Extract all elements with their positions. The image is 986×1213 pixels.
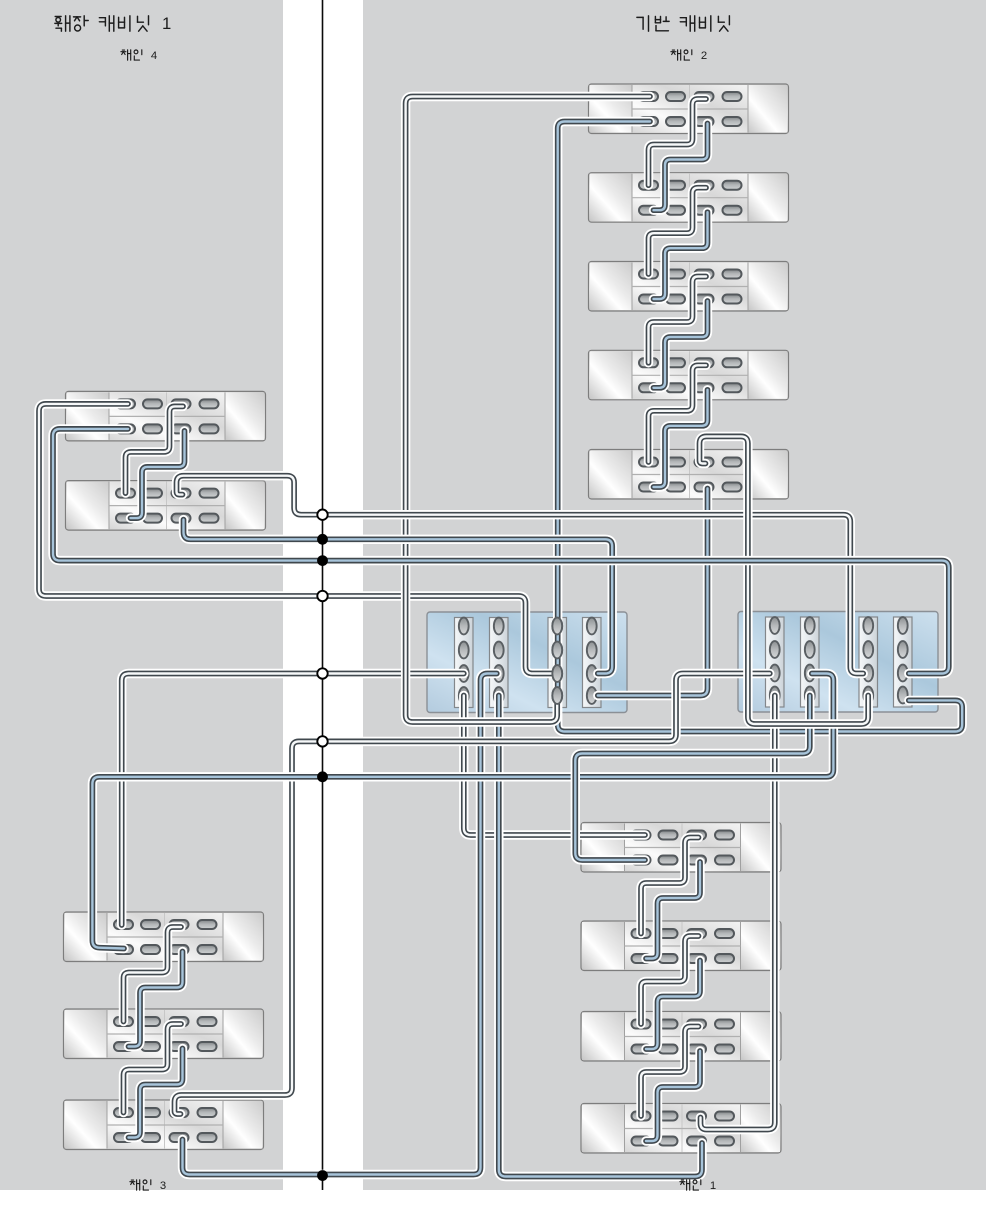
svg-text:1: 1 <box>710 1180 716 1192</box>
svg-text:1: 1 <box>162 14 171 33</box>
svg-text:3: 3 <box>160 1180 166 1192</box>
svg-text:2: 2 <box>701 50 707 62</box>
svg-text:4: 4 <box>151 50 157 62</box>
